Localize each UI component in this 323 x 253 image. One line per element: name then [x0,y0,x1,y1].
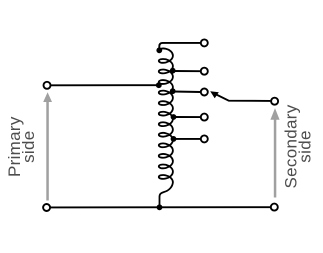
wire: coil top to tap 1 [159,43,200,50]
label: Primary side [5,116,38,177]
wire: primary top lead [51,84,159,86]
node: coil bottom junction on rail [157,204,163,210]
terminal: tap 2 (open circle) [201,68,208,75]
svg-text:side: side [19,131,38,163]
coil L1 winding [159,48,173,206]
terminal: tap 1 (open circle) [201,39,208,46]
terminal: primary top (open circle) [44,82,51,89]
node: tap 3 junction [170,88,176,94]
arrow: secondary side indicator (gray) [270,108,279,197]
terminal: secondary bottom (open circle) [271,204,278,211]
label: Secondary side [282,104,315,188]
terminal: tap 4 (open circle) [201,114,208,121]
node: primary input junction [156,82,162,88]
node: coil top junction [156,47,162,53]
terminal: secondary wiper (open circle) [271,98,278,105]
node: tap 5 junction [171,136,177,142]
arrow: primary side indicator (gray) [43,92,52,200]
node: tap 2 junction [170,68,176,74]
wire: tap 2 [173,70,201,72]
svg-text:side: side [296,130,315,162]
wire: bottom rail [50,206,270,208]
wire: tap 3 [173,91,201,94]
wire: tap 5 [174,138,201,140]
node: tap 4 junction [171,114,177,120]
wire: wiper arm [215,94,271,101]
terminal: tap 5 (open circle) [201,135,208,142]
wire: tap 4 [174,116,201,118]
terminal: tap 3 (open circle) [201,89,208,96]
terminal: primary bottom (open circle) [43,204,50,211]
wiper arrowhead pointing at tap 3 [210,91,219,98]
